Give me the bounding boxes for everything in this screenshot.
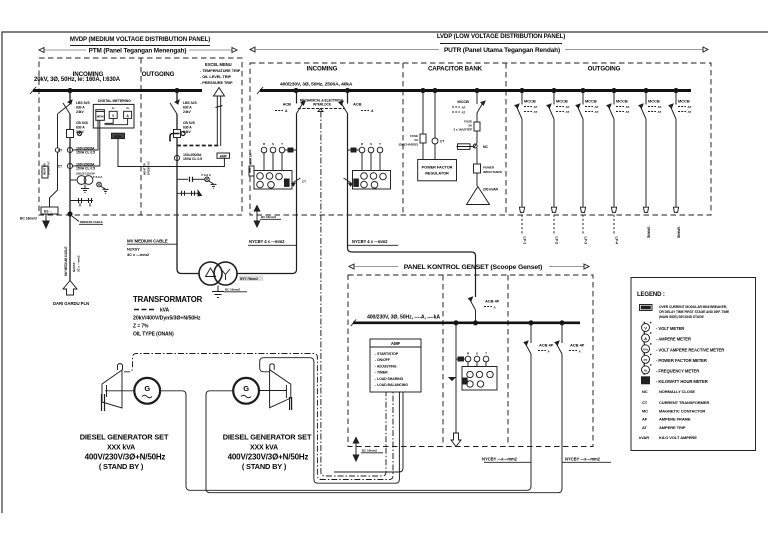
svg-text:AT: AT: [642, 425, 648, 430]
svg-text:LVDP (LOW VOLTAGE DISTRIBUT: LVDP (LOW VOLTAGE DISTRIBUTION PANEL): [437, 33, 565, 40]
AMF control wire spare: [334, 392, 403, 472]
ACB genset feeder 2 wire: [558, 323, 562, 493]
node genset bus 1: [454, 321, 458, 325]
ACB genset incoming: [469, 297, 500, 323]
svg-text:MV MEDIUM CABLE: MV MEDIUM CABLE: [64, 247, 68, 277]
transformer label block: [133, 295, 203, 338]
cable label MV rotated: [64, 247, 81, 277]
svg-text:- LOAD BALANCING: - LOAD BALANCING: [375, 383, 408, 387]
generator G2 control wire: [260, 358, 400, 484]
outgoing feeder LP-1: [515, 88, 538, 244]
svg-text:EXCEL MENU: EXCEL MENU: [205, 62, 232, 67]
generator G1 control wire: [124, 354, 393, 480]
discharge fuse F1: [399, 91, 426, 160]
svg-text:AT: AT: [566, 110, 570, 114]
svg-text:SPARE: SPARE: [677, 227, 681, 239]
svg-text:ACB 4P: ACB 4P: [485, 299, 500, 304]
svg-text:LP-2: LP-2: [555, 237, 559, 245]
interlock control wire: [321, 112, 386, 477]
fuse outgoing: [177, 173, 212, 182]
svg-text:630 A: 630 A: [183, 106, 192, 110]
metering panel genset: [449, 367, 497, 391]
svg-text:CB S#S: CB S#S: [183, 121, 196, 125]
trip menu text: [200, 62, 241, 85]
indicator lamp outgoing: [205, 177, 214, 184]
svg-text:630 A: 630 A: [183, 126, 192, 130]
svg-text:MCCB: MCCB: [648, 99, 660, 104]
earthing switch branch incoming: [50, 104, 71, 207]
svg-text:ACB 4P: ACB 4P: [539, 343, 554, 348]
svg-text:PF: PF: [644, 358, 648, 362]
svg-text:NYCBY ---x---mm2: NYCBY ---x---mm2: [482, 457, 518, 462]
svg-text:- LOAD SHARING: - LOAD SHARING: [375, 377, 404, 381]
svg-text:REGULATOR: REGULATOR: [425, 171, 449, 176]
svg-text:NYCBY 4 x ---mm2: NYCBY 4 x ---mm2: [249, 239, 285, 244]
svg-text:LP-1: LP-1: [523, 237, 527, 245]
svg-text:POWER: POWER: [483, 166, 495, 170]
svg-text:F 6.3 A: F 6.3 A: [202, 173, 212, 177]
svg-text:- KILOWATT HOUR METER: - KILOWATT HOUR METER: [656, 379, 708, 384]
genset 2 label: [223, 433, 312, 472]
outgoing feeder SPARE 2: [669, 88, 692, 239]
title LVDP: [437, 33, 565, 44]
svg-text:NORMALLY CLOSE: NORMALLY CLOSE: [659, 389, 695, 394]
AMF controller box: [370, 339, 421, 392]
svg-text:POWER FACTOR: POWER FACTOR: [422, 165, 453, 170]
svg-text:AMPERE TRIP: AMPERE TRIP: [659, 425, 686, 430]
legend frequency meter: [642, 366, 700, 374]
svg-text:- FREQUENCY METER: - FREQUENCY METER: [656, 368, 699, 373]
svg-text:PANEL KONTROL GENSET (Scoop: PANEL KONTROL GENSET (Scoope Genset): [404, 264, 543, 271]
legend power factor meter: [642, 355, 707, 363]
svg-text:- TIMER: - TIMER: [375, 371, 388, 375]
svg-text:MCCB: MCCB: [524, 99, 536, 104]
svg-text:G: G: [144, 384, 150, 393]
svg-text:630 A: 630 A: [76, 126, 85, 130]
generator G1 power wire: [160, 391, 527, 491]
ground lamp outgoing: [211, 184, 217, 188]
outgoing feeder SPARE 1: [639, 88, 662, 239]
transformer T1: [199, 262, 237, 285]
svg-text:DIGITAL METERING: DIGITAL METERING: [98, 99, 131, 103]
svg-text:CB S#S: CB S#S: [76, 121, 89, 125]
busbar PTM: [30, 77, 202, 94]
header PUTR: [250, 47, 708, 54]
capacitor bank C1: [467, 187, 499, 205]
svg-text:- TEMPERATURE TRIP: - TEMPERATURE TRIP: [200, 68, 241, 73]
cable callout N2XSY: [70, 215, 103, 225]
svg-text:HEATER: HEATER: [249, 152, 253, 165]
svg-text:MV MEDIUM CABLE: MV MEDIUM CABLE: [127, 239, 168, 244]
svg-text:PTM (Panel Tegangan Menengah): PTM (Panel Tegangan Menengah): [89, 47, 187, 54]
title MVDP: [70, 36, 210, 46]
svg-text:SPARE: SPARE: [647, 227, 651, 239]
svg-text:OUTGOING: OUTGOING: [588, 66, 621, 73]
svg-text:kVA: kVA: [160, 308, 170, 314]
ACB G1: [524, 341, 554, 354]
node PTM incoming: [68, 88, 72, 92]
cable label MV to trafo: [127, 239, 177, 258]
node LVDP in2: [345, 88, 349, 92]
svg-text:200 kVAR: 200 kVAR: [483, 188, 498, 192]
svg-text:24kV: 24kV: [183, 110, 191, 114]
ground PTM panel: [20, 214, 49, 228]
svg-text:MEDIUM CABLE: MEDIUM CABLE: [80, 220, 103, 224]
svg-text:- START/STOP: - START/STOP: [375, 352, 399, 356]
legend abbreviations: [639, 389, 709, 440]
current transformer CT2 incoming: [58, 163, 95, 171]
transformer ground: [212, 286, 247, 298]
svg-text:S: S: [476, 352, 478, 356]
genset 1 label: [80, 433, 169, 472]
svg-text:S: S: [272, 142, 274, 146]
node PTM incoming exit: [68, 212, 72, 216]
generator G1: [134, 378, 160, 404]
svg-text:- VOLT METER: - VOLT METER: [656, 326, 684, 331]
svg-text:AF: AF: [658, 105, 662, 109]
svg-text:LBS S#S: LBS S#S: [76, 101, 90, 105]
svg-text:DIESEL GENERATOR SET: DIESEL GENERATOR SET: [223, 433, 312, 442]
svg-text:MCCB: MCCB: [457, 99, 469, 104]
cable label NYCBY incoming 1: [248, 239, 297, 245]
ground lamp incoming: [103, 189, 109, 193]
svg-text:- PRESSURE TRIP: - PRESSURE TRIP: [200, 80, 233, 85]
metering panel incoming 1: [254, 171, 292, 190]
svg-text:100√3:110√3V: 100√3:110√3V: [76, 172, 95, 176]
digital metering box PTM: [93, 99, 134, 128]
svg-text:NYCBY ---x---mm2: NYCBY ---x---mm2: [565, 457, 601, 462]
svg-text:DARI GARDU PLN: DARI GARDU PLN: [53, 301, 89, 306]
cable label NYCBY incoming 2: [348, 239, 399, 245]
svg-text:(MAIN SIDE) SECOND STAGE: (MAIN SIDE) SECOND STAGE: [659, 315, 705, 319]
svg-text:AT: AT: [626, 110, 630, 114]
capacitor fuse F2: [454, 120, 480, 144]
svg-text:ACB 4P: ACB 4P: [570, 343, 585, 348]
svg-text:XXX kVA: XXX kVA: [107, 445, 135, 452]
svg-text:Z = 7%: Z = 7%: [133, 324, 149, 330]
svg-text:400V/230V/3Ø+N/50Hz: 400V/230V/3Ø+N/50Hz: [85, 453, 166, 462]
svg-text:AMP: AMP: [220, 154, 228, 158]
svg-text:A: A: [644, 336, 647, 341]
busbar genset: [351, 315, 580, 327]
svg-text:MC: MC: [642, 409, 648, 414]
svg-text:CURRENT TRANSFORMER: CURRENT TRANSFORMER: [659, 400, 709, 405]
svg-text:MAGNETIC CONTACTOR: MAGNETIC CONTACTOR: [659, 409, 705, 414]
svg-text:CT: CT: [58, 165, 62, 169]
CT set incoming 1: [261, 142, 296, 170]
legend MCCB symbol: [640, 305, 731, 320]
svg-text:AMF: AMF: [391, 341, 401, 346]
svg-text:INTERLOCK: INTERLOCK: [313, 103, 332, 107]
CT set incoming 2: [348, 142, 383, 170]
svg-text:- ON/OFF: - ON/OFF: [375, 358, 391, 362]
svg-text:AMPERE FRAME: AMPERE FRAME: [659, 417, 691, 422]
svg-text:G: G: [243, 384, 249, 393]
svg-text:MCCB: MCCB: [556, 99, 568, 104]
svg-text:AF: AF: [688, 105, 692, 109]
node LVDP in1: [294, 88, 298, 92]
ammeter box outgoing: [177, 153, 230, 167]
svg-text:3C x ---mm2: 3C x ---mm2: [127, 252, 150, 257]
node PTM outgoing: [175, 88, 179, 92]
svg-text:KILO VOLT AMPERE: KILO VOLT AMPERE: [659, 435, 697, 440]
svg-text:INCOMING: INCOMING: [307, 66, 338, 73]
diesel engine E1: [102, 364, 135, 412]
node cap feeder: [475, 88, 479, 92]
panel box PUTR: [250, 63, 711, 215]
svg-text:OR DELAY TIME FIRST STAGE AND: OR DELAY TIME FIRST STAGE AND DEF. TIME: [659, 310, 730, 314]
current transformer CT1 incoming: [58, 147, 95, 155]
svg-text:DIESEL GENERATOR SET: DIESEL GENERATOR SET: [80, 433, 169, 442]
svg-text:PUTR (Panel Utama Tegangan Re: PUTR (Panel Utama Tegangan Rendah): [444, 47, 560, 54]
svg-text:S: S: [370, 142, 372, 146]
ammeter A box: [124, 106, 132, 118]
svg-text:15VA CL 0.5: 15VA CL 0.5: [183, 157, 202, 161]
svg-text:AT: AT: [658, 110, 662, 114]
potential transformer PT incoming: [70, 172, 95, 193]
svg-text:AF: AF: [534, 105, 538, 109]
svg-text:- OIL LEVEL TRIP: - OIL LEVEL TRIP: [200, 74, 232, 79]
cable label NYCBY genset 2: [562, 457, 611, 463]
outgoing feeder LP-3: [576, 88, 599, 244]
svg-text:F 6.3 A: F 6.3 A: [93, 175, 103, 179]
generator G2: [233, 378, 259, 404]
svg-text:LEGEND :: LEGEND :: [637, 292, 665, 298]
legend ampere meter: [642, 334, 692, 342]
capacitor feeder MCCB: [452, 91, 485, 123]
svg-text:HEATER: HEATER: [43, 162, 47, 175]
transformer secondary wire: [237, 215, 297, 274]
svg-text:630 A: 630 A: [76, 106, 85, 110]
svg-text:MFM: MFM: [97, 115, 104, 119]
svg-text:HEATER: HEATER: [143, 162, 147, 175]
indicator lamp incoming: [93, 175, 105, 189]
MV incoming cable wire: [69, 214, 71, 281]
drawout link incoming 2: [344, 178, 353, 186]
svg-text:BC 16mm2: BC 16mm2: [362, 449, 377, 453]
svg-text:INDUCTANCE: INDUCTANCE: [483, 170, 502, 174]
svg-text:- ADJUSTING: - ADJUSTING: [375, 364, 397, 368]
svg-text:20kV/400V/Dyn5/3Ø+N/50Hz: 20kV/400V/Dyn5/3Ø+N/50Hz: [133, 316, 201, 322]
transformer feeder wire: [177, 215, 199, 274]
panel heater PUTR: [249, 152, 255, 176]
interlock note: [298, 99, 345, 112]
svg-text:3 x 16A/STEP: 3 x 16A/STEP: [454, 128, 473, 132]
svg-text:1P/230V AC: 1P/230V AC: [47, 161, 51, 175]
metering panel incoming 2: [353, 171, 391, 190]
svg-text:CT: CT: [440, 140, 444, 144]
PUTR incoming drop 2 wire: [348, 91, 476, 298]
genset metering drop wire: [455, 323, 457, 433]
ACB genset feeder 1 wire: [527, 323, 531, 491]
svg-text:MCCB: MCCB: [678, 99, 690, 104]
svg-text:15VA CL 0.5: 15VA CL 0.5: [76, 151, 95, 155]
svg-text:LP-3: LP-3: [584, 237, 588, 245]
svg-text:CT: CT: [302, 180, 306, 184]
svg-text:ACB: ACB: [353, 102, 362, 107]
ACB incoming 1: [275, 101, 305, 114]
svg-text:MCCB: MCCB: [616, 99, 628, 104]
PTM outgoing feeder wire: [176, 91, 178, 216]
svg-text:V: V: [644, 326, 647, 331]
trip linkage CB: [170, 132, 219, 146]
svg-text:CT: CT: [642, 400, 648, 405]
busbar LVDP: [257, 82, 691, 95]
current transformer CT outgoing: [174, 153, 202, 161]
svg-text:AF: AF: [595, 105, 599, 109]
svg-text:T: T: [281, 142, 283, 146]
svg-text:15VA CL 0.5: 15VA CL 0.5: [76, 167, 95, 171]
arrow to load: [451, 433, 461, 447]
svg-text:MCCB: MCCB: [585, 99, 597, 104]
svg-text:N2XSY: N2XSY: [127, 247, 140, 252]
current transformer CT cap: [432, 91, 444, 160]
node genset bus 2: [473, 321, 477, 325]
svg-text:NC: NC: [642, 389, 648, 394]
PTM incoming feeder wire: [69, 91, 71, 215]
svg-text:AF: AF: [642, 417, 648, 422]
svg-text:NYCBY 4 x ---mm2: NYCBY 4 x ---mm2: [352, 239, 388, 244]
legend volt meter: [642, 324, 685, 332]
svg-text:NYY 70mm2: NYY 70mm2: [240, 277, 258, 281]
cable label NYY: [239, 276, 263, 282]
svg-text:OIL TYPE (ONAN): OIL TYPE (ONAN): [133, 332, 174, 338]
earth switch ES box: [41, 207, 58, 214]
svg-text:AF: AF: [626, 105, 630, 109]
ground PUTR panel: [254, 206, 281, 228]
drawout link incoming 1: [292, 178, 307, 186]
node cap CT: [433, 88, 437, 92]
svg-text:- VOLT AMPERE REACTIVE METER: - VOLT AMPERE REACTIVE METER: [656, 347, 724, 352]
svg-text:T: T: [485, 352, 487, 356]
svg-text:MC: MC: [483, 145, 489, 149]
svg-text:OVER CURRENT MODULAR MINI BREA: OVER CURRENT MODULAR MINI BREAKER,: [659, 305, 727, 309]
node genset bus 4: [560, 321, 564, 325]
svg-text:24kV: 24kV: [76, 110, 84, 114]
svg-text:ES ↔: ES ↔: [44, 210, 53, 214]
svg-text:20kV, 3Ø, 50Hz, Ie: 160A, I:63: 20kV, 3Ø, 50Hz, Ie: 160A, I:630A: [34, 77, 121, 83]
svg-text:AF: AF: [462, 106, 466, 110]
disconnect switch LBS outgoing: [170, 100, 197, 114]
ACB G2: [555, 341, 585, 354]
svg-text:AT: AT: [462, 111, 466, 115]
disconnect switch LBS incoming: [63, 100, 90, 114]
panel box PTM: [39, 58, 242, 215]
svg-text:ACB: ACB: [283, 102, 292, 107]
diesel engine E2: [258, 364, 292, 410]
svg-text:( STAND BY ): ( STAND BY ): [99, 462, 144, 471]
svg-text:BC 16mm2: BC 16mm2: [20, 217, 37, 221]
generator G2 power wire: [206, 391, 558, 493]
contactor MC: [457, 143, 489, 164]
trip signal arrow: [214, 88, 225, 147]
svg-text:kVAR: kVAR: [639, 435, 649, 440]
svg-text:- POWER FACTOR METER: - POWER FACTOR METER: [656, 358, 707, 363]
svg-text:MDM: MDM: [115, 134, 123, 138]
svg-text:400/230V, 3Ø, 50Hz, ----A, ---: 400/230V, 3Ø, 50Hz, ----A, ----kA: [367, 315, 440, 321]
svg-text:3C x ---mm2: 3C x ---mm2: [77, 255, 81, 272]
circuit breaker CB incoming: [67, 121, 89, 138]
svg-text:BC 16mm2: BC 16mm2: [261, 215, 276, 219]
legend kwh meter: [642, 377, 708, 384]
legend meter terminals: [644, 323, 652, 374]
svg-text:TRANSFORMATOR: TRANSFORMATOR: [133, 295, 203, 304]
voltmeter V box: [109, 106, 117, 118]
metering internal wires: [73, 118, 128, 166]
detuning reactor L1: [474, 164, 503, 186]
arrow from PLN: [53, 281, 89, 307]
comms box MDM: [112, 133, 178, 166]
ACB incoming 2: [339, 101, 374, 114]
svg-text:LP-4: LP-4: [615, 237, 619, 245]
svg-text:AF: AF: [566, 105, 570, 109]
svg-text:24kV: 24kV: [76, 130, 84, 134]
svg-text:XXX kVA: XXX kVA: [250, 445, 278, 452]
svg-text:- AMPERE METER: - AMPERE METER: [656, 337, 691, 342]
svg-text:Hz: Hz: [644, 368, 648, 372]
svg-text:AT: AT: [534, 110, 538, 114]
svg-text:BC 16mm2: BC 16mm2: [225, 288, 240, 292]
header Panel Kontrol Genset: [349, 264, 589, 271]
panel box PKG: [348, 275, 593, 447]
header PTM: [39, 47, 237, 54]
svg-text:LBS S#S: LBS S#S: [183, 101, 197, 105]
svg-text:N2XSY: N2XSY: [72, 262, 76, 272]
legend VAR meter: [642, 345, 725, 353]
svg-text:( STAND BY ): ( STAND BY ): [242, 462, 287, 471]
surge arrester outgoing: [177, 191, 202, 196]
panel heater outgoing: [143, 161, 151, 175]
panel heater incoming: [42, 161, 51, 178]
cable label NYCBY genset 1: [482, 457, 531, 463]
multifunction meter MFM: [96, 110, 105, 121]
outgoing feeder LP-4: [607, 88, 630, 244]
svg-text:OUTGOING: OUTGOING: [142, 71, 175, 78]
svg-text:AT: AT: [595, 110, 599, 114]
circuit breaker CB outgoing: [174, 121, 196, 138]
surge arrester incoming: [70, 198, 93, 207]
svg-text:1P/230V AC: 1P/230V AC: [147, 161, 151, 175]
svg-text:AT: AT: [688, 110, 692, 114]
svg-text:(DISCHARGE): (DISCHARGE): [399, 143, 418, 147]
svg-text:400/230V, 3Ø, 50Hz, 2500A, 4: 400/230V, 3Ø, 50Hz, 2500A, 40kA: [280, 82, 353, 88]
svg-text:MVDP (MEDIUM VOLTAGE DISTRI: MVDP (MEDIUM VOLTAGE DISTRIBUTION PANEL): [70, 36, 210, 43]
node cap fuse: [421, 88, 425, 92]
outgoing feeder LP-2: [547, 88, 570, 244]
power factor regulator U1: [418, 160, 457, 181]
legend box: [631, 278, 756, 451]
ground PKG panel: [353, 438, 383, 462]
svg-text:T: T: [379, 142, 381, 146]
PUTR incoming drop 1 wire: [296, 91, 298, 216]
svg-text:CAPACITOR BANK: CAPACITOR BANK: [428, 66, 483, 73]
node genset bus 3: [529, 321, 533, 325]
CT set genset: [456, 352, 489, 367]
svg-text:400V/230V/3Ø+N/50Hz: 400V/230V/3Ø+N/50Hz: [228, 453, 309, 462]
